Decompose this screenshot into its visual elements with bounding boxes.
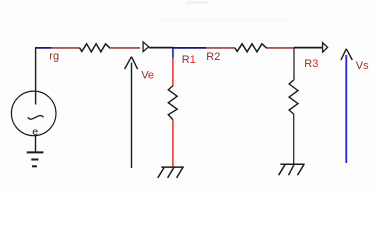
node A: blue stub down	[172, 48, 174, 58]
wire: black vertical below R3	[293, 114, 295, 164]
ground (chassis) under R1	[158, 167, 184, 178]
svg-text:R3: R3	[304, 58, 318, 70]
wire: top-left vertical from corner to source	[35, 47, 37, 104]
source e: circle	[11, 91, 56, 136]
source e: sine squiggle	[28, 116, 44, 120]
resistor rg	[80, 44, 111, 52]
wire: navy segment right of node A	[173, 47, 206, 49]
svg-text:R1: R1	[182, 54, 196, 66]
wire: dark-red segment before rg	[52, 47, 81, 49]
svg-text:rg: rg	[49, 51, 59, 63]
wire: dark-red segment after R2	[267, 47, 295, 49]
arrow Vs: black head	[341, 49, 352, 60]
resistor R3	[289, 80, 298, 114]
wire: top-left blue segment	[35, 47, 52, 49]
resistor R2	[235, 44, 267, 52]
ground (chassis) under R3	[279, 164, 305, 175]
arrow Ve	[125, 57, 138, 168]
wire: dark-red segment before R2	[206, 47, 235, 49]
wire: black segment to node A	[149, 47, 174, 49]
svg-text:Ve: Ve	[141, 70, 154, 82]
arrow Vs: blue shaft	[345, 55, 347, 163]
ground (earth) under source	[27, 152, 44, 166]
wire: black segment to output arrow	[294, 47, 322, 49]
wire: red vertical above R1	[172, 58, 174, 87]
resistor R1	[168, 86, 177, 120]
wire: red vertical below R1	[172, 120, 174, 167]
wire: dark-red segment after rg	[110, 47, 140, 49]
svg-text:Vs: Vs	[356, 60, 369, 72]
svg-text:R2: R2	[206, 51, 220, 63]
wire: black vertical above R3	[293, 48, 295, 81]
output arrow (open triangle)	[323, 43, 328, 53]
buffer arrow 1 (open triangle)	[143, 42, 149, 52]
wire: below source	[35, 135, 37, 152]
